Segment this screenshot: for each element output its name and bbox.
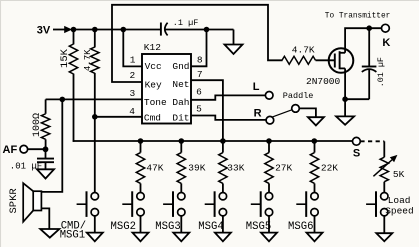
svg-text:7: 7 (197, 69, 203, 80)
resistor 100 ohm (32, 99, 50, 149)
node junction bus/27K (266, 138, 272, 144)
pushbutton MSG6 (296, 191, 318, 217)
capacitor .01 µF key shaping (362, 28, 386, 99)
node 3V supply terminal with arrow (37, 24, 72, 36)
svg-text:Paddle: Paddle (283, 91, 314, 101)
svg-text:Dah: Dah (172, 97, 189, 108)
ground pushbutton MSG5 (261, 216, 277, 241)
svg-text:MSG1: MSG1 (60, 229, 85, 241)
wire Dit pin 5 to R contact (191, 116, 266, 120)
svg-text:L: L (253, 81, 260, 93)
node junction 3V/Vcc (121, 27, 127, 33)
node junction 3V/15K (71, 27, 77, 33)
svg-text:Net: Net (172, 79, 189, 90)
ground top (supply return) (225, 30, 243, 55)
svg-text:To Transmitter: To Transmitter (325, 13, 391, 21)
ground pushbutton CMD/MSG1 (87, 216, 103, 241)
resistor 39K (177, 141, 206, 193)
svg-text:S: S (353, 148, 360, 160)
svg-text:R: R (254, 108, 262, 120)
wire 4.7K bottom to Cmd node (94, 73, 96, 117)
Load Speed label (385, 195, 414, 217)
svg-text:8: 8 (197, 55, 203, 66)
wire dashed S to pot (360, 140, 384, 142)
resistor 15K (59, 30, 78, 75)
CMD/MSG1 label (60, 221, 86, 242)
resistor 27K (265, 141, 293, 193)
node S speed terminal (353, 137, 361, 159)
svg-text:33K: 33K (227, 163, 244, 174)
svg-text:Dit: Dit (172, 113, 189, 124)
svg-text:MSG4: MSG4 (198, 221, 223, 233)
svg-text:15K: 15K (59, 48, 71, 68)
resistor 4.7K gate (282, 45, 316, 65)
node R paddle contact (254, 108, 274, 124)
node junction cap/Gnd pin (204, 27, 210, 33)
ground pushbutton MSG6 (307, 216, 323, 241)
pushbutton Load Speed (366, 191, 388, 217)
speaker SPKR (8, 183, 42, 222)
wire drain to K node (345, 28, 381, 53)
wire source node to cap bottom (345, 98, 369, 100)
node K output terminal (382, 24, 391, 49)
svg-text:Cmd: Cmd (144, 113, 161, 124)
node junction K/cap (366, 25, 372, 31)
svg-text:3V: 3V (37, 24, 51, 36)
svg-text:4: 4 (129, 106, 135, 117)
capacitor C1 .1 µF bypass (161, 18, 198, 35)
wire speaker bottom to ground (41, 208, 49, 229)
svg-text:Vcc: Vcc (145, 61, 162, 72)
node junction bus/22K (312, 138, 318, 144)
svg-text:100Ω: 100Ω (32, 113, 43, 137)
wire 3V rail (71, 29, 160, 31)
svg-text:K: K (382, 37, 390, 49)
wire Key net: pin 2 up over to gate resistor (112, 5, 283, 82)
wire pin 7 Net riser (191, 80, 223, 141)
svg-text:4.7K: 4.7K (292, 45, 315, 56)
svg-text:Gnd: Gnd (172, 61, 189, 72)
wire Tone: pin 3 left to 100 ohm and speaker (46, 98, 142, 100)
svg-text:47K: 47K (146, 163, 163, 174)
wire source down (344, 68, 346, 99)
pot wiper arrow (373, 155, 397, 176)
resistor R 4.7K pull-up (Cmd) (83, 30, 99, 74)
wire Net message bus (73, 140, 353, 142)
svg-text:K12: K12 (144, 42, 161, 53)
svg-text:5K: 5K (393, 169, 405, 180)
svg-text:27K: 27K (275, 163, 292, 174)
node junction Tone/speaker (60, 97, 66, 103)
wire cap to gnd corner (165, 29, 233, 31)
wire speaker top to Tone (41, 99, 62, 191)
svg-text:4.7K: 4.7K (83, 49, 93, 71)
pushbutton MSG3 (163, 191, 185, 217)
node junction bus/33K/Net (220, 138, 226, 144)
svg-text:MSG3: MSG3 (155, 221, 180, 233)
wire Cmd node down to MSG1 button (94, 117, 96, 193)
svg-text:.01 µF: .01 µF (376, 57, 386, 87)
resistor 22K (310, 141, 338, 193)
ground AF cap (37, 162, 54, 178)
ground pushbutton MSG4 (215, 216, 231, 241)
transistor Q1 2N7000 (306, 48, 353, 87)
ground pushbutton MSG3 (173, 216, 189, 241)
ground MOSFET source (336, 99, 354, 125)
svg-text:Speed: Speed (385, 206, 414, 217)
svg-text:39K: 39K (188, 163, 205, 174)
svg-text:SPKR: SPKR (8, 188, 20, 214)
node junction AF/cap (43, 146, 49, 152)
wire Cmd: pin 4 stub (95, 116, 142, 118)
wire Vcc feed: 3V rail down to pin 1 (123, 30, 142, 67)
svg-text:Load: Load (388, 195, 411, 206)
resistor 33K (219, 141, 245, 193)
svg-text:6: 6 (196, 87, 202, 98)
node L paddle contact (253, 81, 273, 99)
capacitor .01 µF AF filter (10, 149, 54, 171)
svg-text:Tone: Tone (144, 97, 167, 108)
pushbutton CMD/MSG1 (77, 191, 99, 217)
node junction bus/39K (179, 138, 185, 144)
wire 15K bottom to message bus (73, 74, 75, 142)
svg-text:5: 5 (196, 104, 202, 115)
svg-text:.1 µF: .1 µF (173, 18, 199, 28)
svg-text:2: 2 (130, 70, 136, 81)
resistor 5K speed pot (380, 141, 405, 192)
pushbutton MSG2 (122, 191, 144, 217)
svg-text:1: 1 (130, 55, 136, 66)
ground pushbutton MSG2 (133, 216, 149, 241)
ground paddle (308, 117, 324, 125)
svg-text:MSG6: MSG6 (288, 221, 313, 233)
pushbutton MSG5 (251, 191, 273, 217)
ground speaker (40, 229, 59, 238)
pushbutton MSG4 (205, 191, 227, 217)
wire paddle common to ground (299, 108, 316, 117)
node junction source/cap (342, 96, 348, 102)
svg-text:Key: Key (145, 80, 162, 91)
svg-text:MSG2: MSG2 (111, 221, 136, 233)
ground Load Speed button (376, 216, 392, 241)
wire gate lead (316, 59, 335, 61)
node AF input terminal (3, 144, 46, 156)
wire Gnd pin 8 riser (191, 30, 207, 67)
resistor 47K (136, 141, 164, 193)
svg-text:MSG5: MSG5 (246, 221, 271, 233)
op-amp U1 keyer chip K12 box (142, 54, 191, 124)
svg-text:3: 3 (130, 88, 136, 99)
svg-text:22K: 22K (321, 163, 338, 174)
node junction Cmd/4.7K/MSG1 (92, 114, 98, 120)
switch paddle lever and common (272, 91, 314, 117)
svg-text:2N7000: 2N7000 (306, 76, 341, 87)
wire Dah pin 6 to L contact (191, 95, 265, 99)
node junction 3V/4.7K (92, 27, 98, 33)
node junction bus/47K (138, 138, 144, 144)
svg-text:AF: AF (3, 144, 18, 156)
